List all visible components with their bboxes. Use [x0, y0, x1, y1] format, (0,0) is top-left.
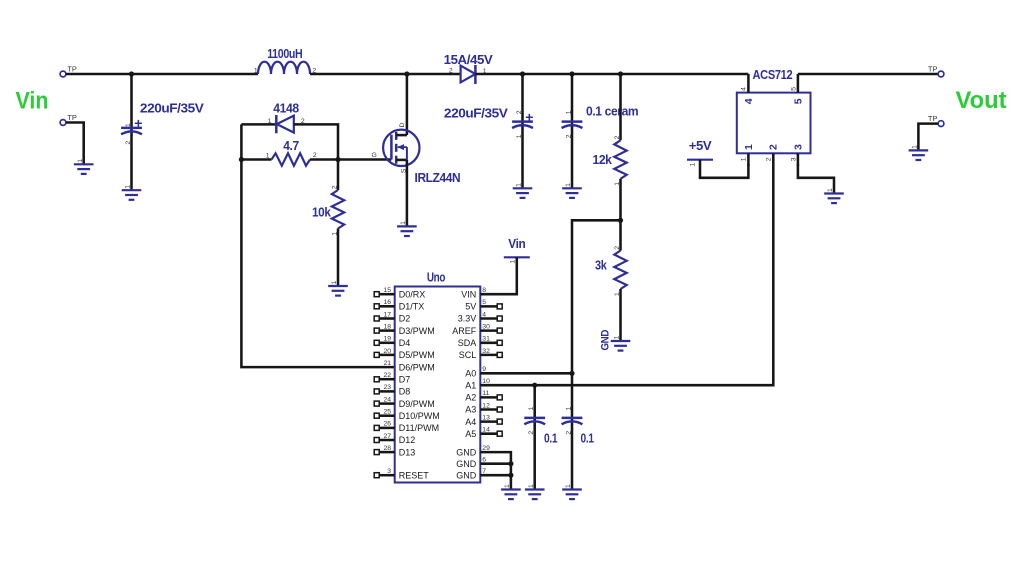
pin 23 D8 of Uno [374, 384, 410, 396]
pin 5 of ACS712 [791, 74, 805, 104]
svg-text:D8: D8 [399, 387, 411, 397]
svg-text:1: 1 [528, 407, 535, 411]
pin 32 SCL of Uno [459, 348, 502, 360]
svg-text:1: 1 [528, 484, 535, 488]
svg-text:1: 1 [331, 281, 338, 285]
svg-text:D11/PWM: D11/PWM [399, 423, 439, 433]
pin 10 A1 of Uno [465, 378, 490, 390]
pin 21 D6/PWM of Uno [383, 360, 434, 372]
svg-text:A2: A2 [465, 393, 476, 403]
svg-text:2: 2 [313, 152, 317, 159]
svg-text:1: 1 [509, 260, 516, 264]
junction: A0 / divider tap / C5 [569, 371, 574, 376]
wire: R1 left lead [241, 158, 271, 161]
junction: GND pin 6 [508, 461, 513, 466]
svg-text:D2: D2 [399, 314, 411, 324]
svg-text:TP: TP [67, 65, 77, 74]
junction: gate network left [239, 157, 244, 162]
pin 31 SDA of Uno [458, 336, 502, 348]
capacitor C3 0.1 ceramic [562, 105, 639, 139]
svg-text:GND: GND [456, 447, 477, 457]
wire: C4 leads [533, 385, 536, 489]
junction: ceramic cap C3 node [569, 71, 574, 76]
svg-text:220uF/35V: 220uF/35V [140, 102, 205, 116]
capacitor C5 0.1 (A0 filter) [562, 407, 594, 446]
svg-text:3.3V: 3.3V [458, 314, 477, 324]
pin 24 D9/PWM of Uno [374, 396, 435, 408]
op-amp n/a - transistor Q1 IRLZ44N MOSFET [372, 123, 461, 186]
svg-text:2: 2 [768, 144, 780, 150]
wire: A0 net [480, 372, 572, 375]
pin 25 D10/PWM of Uno [374, 409, 440, 421]
pin 11 A2 of Uno [465, 390, 502, 402]
svg-text:1100uH: 1100uH [267, 47, 303, 61]
pin 22 D7 of Uno [374, 372, 410, 384]
pin 13 A4 of Uno [465, 414, 502, 426]
wire: +5V to ACS712 pin1 [700, 160, 748, 178]
svg-text:2: 2 [331, 185, 338, 189]
pin 28 D13 of Uno [374, 445, 415, 457]
capacitor C2 lead wires [521, 74, 524, 188]
capacitor C3 lead wires [571, 74, 574, 188]
pin 4 of ACS712 [741, 74, 755, 104]
svg-text:2: 2 [565, 134, 572, 138]
svg-text:A5: A5 [465, 429, 476, 439]
resistor R2 10k [312, 185, 344, 235]
svg-text:RESET: RESET [399, 470, 430, 480]
svg-text:5: 5 [793, 98, 805, 104]
wire: TP4 to ground [918, 124, 938, 150]
wire: divider tap to A0 net [572, 220, 621, 373]
svg-text:+5V: +5V [689, 139, 713, 153]
svg-text:1: 1 [400, 221, 407, 225]
label Vin (input) [16, 87, 49, 114]
svg-text:D13: D13 [399, 447, 416, 457]
svg-text:1: 1 [516, 134, 523, 138]
junction: feedback divider node [618, 218, 623, 223]
resistor R4 3k [595, 246, 627, 296]
junction: input cap node [129, 71, 134, 76]
svg-text:3k: 3k [595, 259, 607, 273]
wire: D1 to gate node vertical [294, 124, 338, 190]
wire: A1 net to ACS712 pin2 [480, 153, 773, 385]
ground (Uno GND pins) [501, 484, 521, 499]
wire top rail: L1 to diode D2 [310, 73, 460, 76]
wire top rail: D2 to ACS712 pin4 [475, 73, 748, 76]
svg-text:1: 1 [743, 144, 755, 150]
pin 15 D0/RX of Uno [374, 287, 425, 299]
wire: ACS712 pin3 to ground [798, 164, 834, 193]
pin 5 5V of Uno [465, 299, 502, 311]
svg-text:GND: GND [456, 470, 477, 480]
pin 3 of ACS712 [791, 144, 805, 166]
svg-text:VIN: VIN [461, 289, 476, 299]
pin 12 A3 of Uno [465, 402, 502, 414]
wire: C5 leads [571, 373, 574, 489]
svg-text:D12: D12 [399, 435, 416, 445]
ground GND (R4 3k) [600, 330, 631, 351]
svg-text:Vin: Vin [16, 87, 49, 114]
svg-text:0.1: 0.1 [544, 432, 558, 446]
svg-text:1: 1 [565, 407, 572, 411]
wire: MOSFET drain [406, 74, 409, 135]
capacitor C4 0.1 (A1 filter) [524, 407, 557, 446]
wire: MOSFET source to ground [406, 160, 409, 226]
svg-text:1: 1 [565, 484, 572, 488]
svg-text:3: 3 [791, 157, 798, 161]
svg-text:4: 4 [743, 98, 755, 104]
pin 2 of ACS712 [766, 144, 780, 161]
junction: GND pin 7 [508, 473, 513, 478]
pin 9 A0 of Uno [465, 366, 486, 378]
pin 19 D4 of Uno [374, 336, 410, 348]
svg-text:4: 4 [741, 87, 748, 91]
svg-text:4148: 4148 [273, 102, 299, 116]
junction: switch node [404, 71, 409, 76]
svg-text:D0/RX: D0/RX [399, 289, 426, 299]
svg-text:Vout: Vout [956, 87, 1007, 114]
svg-text:D: D [399, 123, 406, 128]
svg-text:2: 2 [766, 157, 773, 161]
ground (C4) [525, 484, 545, 499]
pin 4 3.3V of Uno [458, 311, 502, 323]
svg-text:D10/PWM: D10/PWM [399, 411, 440, 421]
svg-text:1: 1 [125, 123, 132, 127]
svg-text:Uno: Uno [427, 271, 446, 285]
svg-text:2: 2 [528, 431, 535, 435]
ground (TP4) [909, 145, 929, 160]
ground (C1) [122, 185, 142, 200]
svg-text:A3: A3 [465, 405, 476, 415]
svg-text:0.1: 0.1 [581, 432, 595, 446]
svg-text:29: 29 [482, 445, 490, 452]
svg-text:IRLZ44N: IRLZ44N [415, 171, 461, 185]
svg-text:2: 2 [125, 141, 132, 145]
svg-text:AREF: AREF [452, 326, 477, 336]
wire: R2 to ground [337, 229, 340, 286]
pin 18 D3/PWM of Uno [374, 323, 435, 335]
svg-text:GND: GND [600, 330, 612, 351]
ground (C2) [513, 183, 533, 198]
svg-text:220uF/35V: 220uF/35V [444, 107, 509, 121]
svg-text:D9/PWM: D9/PWM [399, 399, 435, 409]
junction: gate node [335, 157, 340, 162]
svg-text:4.7: 4.7 [283, 139, 299, 153]
svg-text:TP: TP [928, 114, 938, 123]
wire: gate node to MOSFET gate [310, 158, 391, 161]
diode D2 15A/45V [444, 53, 494, 84]
test point TP1 (Vin) [60, 65, 77, 77]
svg-text:5V: 5V [465, 302, 476, 312]
svg-text:D6/PWM: D6/PWM [399, 362, 435, 372]
test point TP3 (Vout) [928, 65, 944, 77]
pin 14 A5 of Uno [465, 427, 502, 439]
ground (R2 10k) [328, 281, 348, 296]
capacitor C2 220uF/35V (output electrolytic) [444, 107, 533, 139]
svg-text:1: 1 [125, 185, 132, 189]
pin 29 GND of Uno [456, 445, 490, 457]
svg-text:SCL: SCL [459, 350, 477, 360]
pin 6 GND of Uno [456, 457, 486, 469]
svg-text:2: 2 [565, 431, 572, 435]
wire: R4 leads [619, 220, 622, 340]
wire: ACS712 pin5 to TP3 [798, 73, 938, 76]
svg-text:1: 1 [266, 152, 270, 159]
svg-text:12k: 12k [593, 153, 612, 167]
ground (C5) [562, 484, 582, 499]
svg-text:5: 5 [791, 87, 798, 91]
diode D1 4148 [268, 102, 305, 134]
wire: R3 to divider node [619, 179, 622, 221]
pin 30 AREF of Uno [452, 323, 502, 335]
ground (TP2) [74, 159, 94, 174]
ground (C3) [562, 183, 582, 198]
label Vout (output) [956, 87, 1007, 114]
junction: output cap C2 node [520, 71, 525, 76]
op-amp n/a - IC U1 ACS712 box [737, 68, 811, 153]
op-amp n/a - module U2 Arduino Uno box [395, 271, 481, 483]
svg-text:D4: D4 [399, 338, 411, 348]
pin 8 VIN of Uno [461, 287, 486, 299]
power +5V supply symbol [687, 139, 713, 167]
svg-text:1: 1 [690, 163, 697, 167]
wire: rail to R3 12k [619, 74, 622, 140]
test point TP4 (output gnd) [928, 114, 944, 127]
svg-text:3: 3 [793, 144, 805, 150]
pin 26 D11/PWM of Uno [374, 421, 439, 433]
pin 27 D12 of Uno [374, 433, 415, 445]
svg-text:1: 1 [741, 157, 748, 161]
svg-text:15A/45V: 15A/45V [444, 53, 494, 67]
junction: divider 12k node [618, 71, 623, 76]
svg-text:G: G [372, 152, 377, 159]
inductor L1 1100uH [254, 47, 317, 74]
svg-text:1: 1 [912, 145, 919, 149]
svg-text:1: 1 [268, 118, 272, 125]
wire: D6/PWM net left vertical and to Arduino [241, 124, 394, 367]
test point TP2 (input gnd) [60, 113, 77, 125]
ground (Q1 source) [397, 221, 417, 236]
svg-text:0.1 ceram: 0.1 ceram [586, 105, 639, 119]
svg-text:21: 21 [383, 360, 391, 367]
svg-text:D1/TX: D1/TX [399, 302, 425, 312]
junction: A1 / C4 [532, 383, 537, 388]
svg-text:GND: GND [456, 459, 477, 469]
pin 16 D1/TX of Uno [374, 299, 424, 311]
svg-text:TP: TP [67, 113, 77, 122]
pin 1 of ACS712 [741, 144, 755, 166]
wire TP2 to ground [66, 123, 84, 164]
svg-text:1: 1 [565, 183, 572, 187]
pin 3 RESET of Uno [374, 468, 429, 480]
svg-text:A4: A4 [465, 417, 476, 427]
svg-text:D5/PWM: D5/PWM [399, 350, 435, 360]
svg-text:2: 2 [516, 110, 523, 114]
svg-text:1: 1 [614, 336, 621, 340]
svg-text:1: 1 [827, 188, 834, 192]
wire: Vin supply to VIN pin [480, 257, 517, 294]
pin 7 GND of Uno [456, 468, 486, 480]
svg-text:1: 1 [504, 484, 511, 488]
capacitor C1 220uF/35V (input electrolytic) [121, 102, 204, 145]
svg-text:2: 2 [449, 67, 453, 74]
pin 20 D5/PWM of Uno [374, 348, 435, 360]
svg-text:SDA: SDA [458, 338, 477, 348]
svg-text:D3/PWM: D3/PWM [399, 326, 435, 336]
svg-text:A1: A1 [465, 380, 476, 390]
resistor R1 4.7 [266, 139, 317, 166]
svg-text:1: 1 [565, 110, 572, 114]
wire top rail: TP1 to inductor L1 [66, 73, 258, 76]
svg-text:1: 1 [254, 68, 258, 75]
wire: GND pins bus [480, 452, 511, 489]
resistor R3 12k [593, 136, 627, 186]
svg-text:+: + [134, 115, 142, 131]
svg-text:2: 2 [614, 136, 621, 140]
svg-text:ACS712: ACS712 [753, 68, 793, 82]
capacitor C1 220uF/35V lead wires [130, 74, 133, 190]
svg-text:1: 1 [77, 159, 84, 163]
svg-text:1: 1 [516, 183, 523, 187]
wire: diode D1 anode side [241, 123, 275, 126]
svg-text:+: + [525, 109, 533, 125]
ground (ACS712 pin3) [824, 188, 844, 203]
power Vin supply symbol (to VIN pin) [504, 237, 530, 264]
svg-text:Vin: Vin [508, 237, 525, 251]
svg-text:D7: D7 [399, 374, 411, 384]
svg-text:TP: TP [928, 65, 938, 74]
svg-text:10k: 10k [312, 206, 331, 220]
pin 17 D2 of Uno [374, 311, 410, 323]
svg-text:A0: A0 [465, 369, 476, 379]
